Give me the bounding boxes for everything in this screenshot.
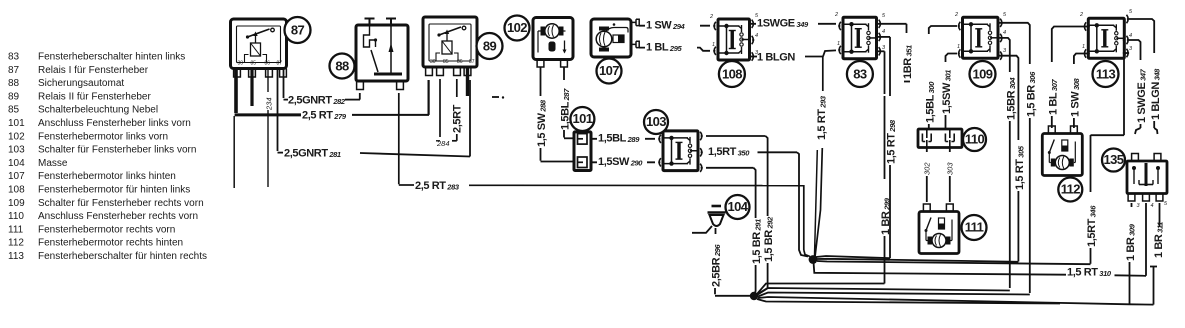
svg-text:Schalter für Fensterheber rech: Schalter für Fensterheber rechts vorn xyxy=(38,198,204,209)
svg-text:303: 303 xyxy=(946,162,955,175)
wire into node RT doubled xyxy=(815,150,818,256)
svg-text:30: 30 xyxy=(238,61,244,67)
wire 1 BL 307 from switch 113 to motor 112 xyxy=(1052,27,1088,129)
wire 1 SW 308 from switch 113 to motor 112 xyxy=(1074,54,1088,129)
svg-text:89: 89 xyxy=(8,91,20,102)
svg-text:1BR 351: 1BR 351 xyxy=(902,45,914,79)
switch 109 pin sockets xyxy=(954,12,1007,60)
wire 1,5SW 303 from connector 110 to motor 111 xyxy=(949,148,951,203)
circle designator 110 xyxy=(963,128,986,151)
wire 1,5SW 301 from switch 109 to connector 110 xyxy=(946,54,958,130)
svg-text:88: 88 xyxy=(8,78,20,89)
svg-text:1 SWGE 347: 1 SWGE 347 xyxy=(1136,68,1148,123)
wire 234 below relay 87 xyxy=(267,68,269,187)
connector 101 box xyxy=(574,132,591,171)
switch 83 box xyxy=(843,17,877,59)
svg-text:1 BR 311: 1 BR 311 xyxy=(1153,222,1165,258)
svg-text:1,5BR 304: 1,5BR 304 xyxy=(1006,77,1018,120)
svg-text:110: 110 xyxy=(8,211,24,222)
svg-text:1 BLGN: 1 BLGN xyxy=(757,51,795,63)
svg-text:104: 104 xyxy=(8,158,25,169)
svg-text:Fensterhebermotor rechts vorn: Fensterhebermotor rechts vorn xyxy=(38,224,175,235)
wire 1,5 BR 292 from switch 103 to ground node xyxy=(706,136,768,295)
svg-text:1 BL 307: 1 BL 307 xyxy=(1048,79,1060,115)
circuit breaker 88 box xyxy=(356,19,408,82)
wire 1 BR 309 from connector 135 to ground bus xyxy=(1130,203,1132,304)
svg-text:85: 85 xyxy=(8,105,20,116)
circle designator 101 xyxy=(570,107,594,131)
connector 110 box xyxy=(918,129,962,148)
wire 1,5 RT 350 from switch 103 to node RT xyxy=(758,152,809,256)
motor 107 box xyxy=(591,19,631,57)
svg-text:Fensterheberschalter für hinte: Fensterheberschalter für hinten rechts xyxy=(38,251,207,262)
switch 103 box xyxy=(663,131,698,171)
svg-text:Fensterhebermotor rechts hinte: Fensterhebermotor rechts hinten xyxy=(38,238,183,249)
label 1SWGE 349 xyxy=(756,18,818,29)
wire ground bus bottom to connector 135 xyxy=(758,297,1154,305)
wire ground fan line 5 xyxy=(757,299,1060,304)
svg-text:4: 4 xyxy=(882,29,885,35)
svg-text:113: 113 xyxy=(1096,66,1116,81)
svg-text:1,5SW 290: 1,5SW 290 xyxy=(598,156,643,168)
wire ground fan line 2 to 1,5BR 304 xyxy=(757,288,1010,295)
wire 1,5 SW 288 from motor 102 to connector 101 xyxy=(541,67,575,162)
svg-text:Fensterhebermotor für hinten l: Fensterhebermotor für hinten links xyxy=(38,185,190,196)
circle designator 102 xyxy=(505,16,530,41)
circle designator 103 xyxy=(644,110,668,134)
svg-text:103: 103 xyxy=(8,145,25,156)
svg-text:1,5 RT 293: 1,5 RT 293 xyxy=(816,95,828,140)
svg-text:1,5 BR 306: 1,5 BR 306 xyxy=(1026,71,1038,117)
svg-text:109: 109 xyxy=(8,198,25,209)
wire 1,5BL 300 from switch 109 to connector 110 xyxy=(929,26,957,129)
svg-text:1,5 BR 292: 1,5 BR 292 xyxy=(763,216,775,262)
ground Masse 104 symbol xyxy=(692,206,726,233)
thick stub under relay 89 xyxy=(466,67,469,96)
svg-text:2,5GNRT 282: 2,5GNRT 282 xyxy=(288,94,346,106)
svg-text:104: 104 xyxy=(728,199,749,214)
svg-text:1,5BL 300: 1,5BL 300 xyxy=(925,81,937,123)
svg-text:Anschluss Fensterheber links v: Anschluss Fensterheber links vorn xyxy=(38,118,191,129)
svg-text:111: 111 xyxy=(965,220,984,235)
svg-text:88: 88 xyxy=(335,58,349,73)
svg-text:1,5 RT 305: 1,5 RT 305 xyxy=(1014,145,1026,190)
ground node junction dot xyxy=(750,292,758,300)
relay 89 pins xyxy=(426,67,471,76)
wire 284 / 2,5RT loop under relay 89 xyxy=(436,79,457,141)
switch 108 pin sockets xyxy=(709,13,759,61)
svg-text:107: 107 xyxy=(599,63,619,78)
motor 111 pins xyxy=(923,204,953,212)
svg-text:87: 87 xyxy=(469,59,475,65)
svg-text:4: 4 xyxy=(755,33,758,39)
svg-text:83: 83 xyxy=(853,66,867,81)
wire node RT elbow down to 1,5 RT 310 line xyxy=(814,262,1067,275)
svg-text:30: 30 xyxy=(430,59,436,65)
wire 1,5BL 302 from connector 110 to motor 111 xyxy=(926,148,928,203)
wire 1SWGE 349 from switch 108 to switch 83 xyxy=(750,23,836,25)
label 1 SW 294 xyxy=(645,20,700,31)
wire ground fan line 3 to 1,5 BR 306 xyxy=(758,293,1030,297)
svg-text:108: 108 xyxy=(722,66,742,81)
wire 1 SW 294 from motor 107 to switch 108 xyxy=(639,25,710,27)
svg-text:86: 86 xyxy=(265,61,271,67)
svg-text:2,5BR 296: 2,5BR 296 xyxy=(711,244,723,287)
circle designator 135 xyxy=(1102,149,1125,172)
svg-text:2,5 RT 283: 2,5 RT 283 xyxy=(415,180,460,192)
circle designator 83 xyxy=(847,61,873,87)
svg-text:102: 102 xyxy=(507,20,527,35)
svg-text:1 BL 295: 1 BL 295 xyxy=(646,41,682,53)
svg-text:1: 1 xyxy=(1082,44,1085,50)
svg-text:2: 2 xyxy=(1079,12,1083,18)
svg-text:108: 108 xyxy=(8,185,25,196)
svg-text:102: 102 xyxy=(8,131,25,142)
label 1,5RT 350 xyxy=(707,146,757,158)
connector 135 bottom pins xyxy=(1128,194,1168,210)
svg-text:Relais II für Fensterheber: Relais II für Fensterheber xyxy=(38,91,151,102)
svg-text:86: 86 xyxy=(457,59,463,65)
circle designator 109 xyxy=(970,61,996,87)
wire 1 BL 295 from motor 107 to switch 108 xyxy=(639,48,710,51)
svg-text:109: 109 xyxy=(973,66,993,81)
svg-text:101: 101 xyxy=(572,111,592,126)
motor 107 pins xyxy=(631,19,639,47)
mark near relay 89 xyxy=(492,96,499,98)
circle designator 107 xyxy=(597,59,622,84)
wire 1,5 BR 291 from switch 103 to ground node xyxy=(706,168,756,294)
svg-text:2: 2 xyxy=(954,12,958,18)
svg-text:1,5RT 346: 1,5RT 346 xyxy=(1086,205,1098,247)
svg-text:1 SW 308: 1 SW 308 xyxy=(1070,77,1082,117)
wire 1,5 RT 310 line right segment to 135 pin 4 xyxy=(1115,274,1147,277)
switch 113 pin sockets xyxy=(1079,9,1133,58)
label 1 BL 295 xyxy=(645,42,697,53)
switch 103 pin sockets xyxy=(658,132,703,172)
motor 102 pins xyxy=(537,60,567,68)
wire 1,5RT 346 from node RT to switch 113 xyxy=(1091,53,1130,264)
wire 2,5GNRT 281 from relay 87 to relay 89 xyxy=(278,68,471,157)
svg-text:4: 4 xyxy=(1003,30,1006,36)
switch 83 pin sockets xyxy=(834,12,886,56)
circle designator 89 xyxy=(477,33,503,59)
svg-text:302: 302 xyxy=(923,162,932,175)
svg-text:234: 234 xyxy=(265,97,274,111)
svg-text:112: 112 xyxy=(1061,182,1081,197)
svg-text:135: 135 xyxy=(1104,152,1124,167)
relay 87 pins xyxy=(234,69,287,78)
wire 1,5 RT 293 from node to switch 83 branch xyxy=(815,57,823,258)
switch 113 box xyxy=(1088,18,1124,58)
wire stub below relay 87 pin 2 xyxy=(250,69,253,107)
svg-text:1 BLGN 348: 1 BLGN 348 xyxy=(1150,68,1162,120)
label 1,5SW 290 xyxy=(597,156,647,167)
svg-text:1 BR 309: 1 BR 309 xyxy=(1125,223,1137,261)
wire node RT fan line 3 to 1,5RT 346 xyxy=(817,261,1091,264)
svg-text:1: 1 xyxy=(957,44,960,50)
wire 1,5BL 289 from connector 101 to switch 103 xyxy=(591,138,655,140)
svg-text:1: 1 xyxy=(712,42,715,48)
wire 1,5SW 290 from connector 101 to switch 103 xyxy=(591,161,655,163)
svg-text:87: 87 xyxy=(277,61,283,67)
svg-text:Masse: Masse xyxy=(38,158,68,169)
motor 111 box xyxy=(919,212,959,254)
wire 1,5BR 304 from switch 109 to ground bus xyxy=(998,38,1010,288)
wire feed below relay 87 pin 85 xyxy=(233,116,235,188)
circle designator 112 xyxy=(1058,178,1082,202)
motor 112 box xyxy=(1042,134,1082,176)
circle designator 104 xyxy=(726,195,750,219)
svg-text:1,5RT 350: 1,5RT 350 xyxy=(708,146,750,158)
wire node RT fan line 1 to 1,5 RT 298 xyxy=(816,256,890,258)
motor 102 box xyxy=(533,18,573,60)
circle designator 111 xyxy=(962,215,987,240)
svg-text:4: 4 xyxy=(1129,33,1132,39)
svg-text:Fensterheberschalter hinten li: Fensterheberschalter hinten links xyxy=(38,52,185,63)
wire 1 BLGN 348 from switch 113 to connector 135 xyxy=(1129,19,1158,134)
svg-text:4: 4 xyxy=(1151,203,1154,209)
svg-text:1,5BL 289: 1,5BL 289 xyxy=(598,132,640,144)
svg-text:Relais I für Fensterheber: Relais I für Fensterheber xyxy=(38,65,149,76)
svg-text:1,5 BR 291: 1,5 BR 291 xyxy=(751,219,763,264)
wire 2,5 RT 279 bus from relay 87 to relay 89 xyxy=(235,68,429,115)
wire 1,5 RT 305 from switch 109 to node RT xyxy=(998,56,1018,262)
svg-text:87: 87 xyxy=(291,22,305,37)
wire 1,5 BR 306 from switch 109 to ground bus xyxy=(998,23,1030,293)
svg-text:2: 2 xyxy=(709,14,713,20)
label 1,5BL 289 xyxy=(597,132,645,143)
legend list xyxy=(8,52,207,263)
wire 1 BR 299 from switch 83 to ground bus xyxy=(877,51,885,283)
wire ground fan line 1 to 1 BR 299 xyxy=(757,284,885,295)
svg-text:Fensterhebermotor links vorn: Fensterhebermotor links vorn xyxy=(38,131,168,142)
breaker 88 pins xyxy=(357,81,404,90)
svg-text:85: 85 xyxy=(251,61,257,67)
svg-text:103: 103 xyxy=(646,114,666,129)
circle designator 88 xyxy=(330,54,355,79)
circle designator 113 xyxy=(1093,61,1119,87)
svg-text:Anschluss Fensterheber rechts: Anschluss Fensterheber rechts vorn xyxy=(38,211,198,222)
node RT junction dot xyxy=(809,255,818,264)
wire 1,5BL 287 from motor 102 to connector 101 xyxy=(564,67,574,138)
switch 109 box xyxy=(963,17,999,58)
svg-text:2,5 RT 279: 2,5 RT 279 xyxy=(302,110,347,122)
svg-text:112: 112 xyxy=(8,238,24,249)
svg-text:1,5 SW 288: 1,5 SW 288 xyxy=(536,99,548,147)
svg-text:284: 284 xyxy=(436,139,450,148)
svg-text:89: 89 xyxy=(483,38,497,53)
wire 2,5 RT 283 from breaker 88 down to node RT xyxy=(399,93,810,257)
wire 1,5 RT 298 from switch 83 to node RT xyxy=(877,37,890,258)
svg-text:2,5GNRT 281: 2,5GNRT 281 xyxy=(284,147,341,159)
svg-text:83: 83 xyxy=(8,52,20,63)
svg-text:87: 87 xyxy=(8,65,20,76)
wire 1 BLGN from switch 108 to switch 83 xyxy=(750,50,836,56)
svg-text:1,5 RT 310: 1,5 RT 310 xyxy=(1067,266,1112,278)
svg-text:2,5RT: 2,5RT xyxy=(452,104,464,133)
wire 2,5GNRT 282 from relay 87 to breaker 88 xyxy=(284,68,361,100)
svg-text:1: 1 xyxy=(837,41,840,47)
svg-text:110: 110 xyxy=(965,132,985,147)
switch 108 box xyxy=(718,19,750,60)
wire 1 BR 311 from connector 135 to ground bus xyxy=(1150,203,1160,305)
svg-text:113: 113 xyxy=(8,251,24,262)
svg-text:Sicherungsautomat: Sicherungsautomat xyxy=(38,78,124,89)
relay 89 box xyxy=(423,17,477,67)
wire ground lead from Masse 104 xyxy=(715,228,751,296)
svg-text:101: 101 xyxy=(8,118,25,129)
relay 87 box xyxy=(231,19,287,69)
svg-text:1 BR 299: 1 BR 299 xyxy=(880,197,892,235)
wire 310 vertical to connector 135 pin 4 xyxy=(1145,203,1147,276)
svg-text:107: 107 xyxy=(8,171,25,182)
svg-text:1SWGE 349: 1SWGE 349 xyxy=(757,17,809,29)
connector 135 top pins xyxy=(1132,154,1161,162)
svg-text:Fensterhebermotor links hinten: Fensterhebermotor links hinten xyxy=(38,171,176,182)
wire 1 BR 351 from switch 83 xyxy=(877,24,910,82)
svg-text:2: 2 xyxy=(834,12,838,18)
svg-text:1 SW 294: 1 SW 294 xyxy=(646,19,686,31)
svg-text:Schalterbeleuchtung Nebel: Schalterbeleuchtung Nebel xyxy=(38,105,158,116)
svg-text:Schalter für Fensterheber link: Schalter für Fensterheber links vorn xyxy=(38,145,196,156)
wire 1 SWGE 347 from switch 113 to connector 135 xyxy=(1129,40,1141,134)
connector 135 box xyxy=(1127,161,1167,194)
circle designator 108 xyxy=(719,61,745,87)
svg-text:1,5 RT 298: 1,5 RT 298 xyxy=(886,119,898,164)
svg-text:111: 111 xyxy=(8,224,24,235)
svg-text:85: 85 xyxy=(443,59,449,65)
svg-text:1,5BL 287: 1,5BL 287 xyxy=(560,88,572,130)
motor 112 pins xyxy=(1048,126,1077,134)
svg-text:1,5SW 301: 1,5SW 301 xyxy=(941,70,953,114)
circle designator 87 xyxy=(285,17,311,43)
wire node RT fan line 2 to 1,5 RT 305 xyxy=(817,259,1018,262)
